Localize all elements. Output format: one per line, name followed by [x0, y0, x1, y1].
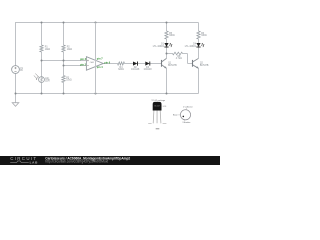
svg-text:http://circuitlab.com/c/387g43: http://circuitlab.com/c/387g437y2b4kt/OM…	[45, 160, 108, 164]
svg-text:TO-92 package: TO-92 package	[151, 100, 166, 102]
svg-text:LDR: LDR	[45, 81, 50, 83]
svg-text:10kΩ: 10kΩ	[66, 80, 72, 82]
svg-text:4.7kΩ: 4.7kΩ	[176, 58, 182, 60]
svg-text:LTL-4231N: LTL-4231N	[185, 46, 197, 48]
svg-text:10kΩ: 10kΩ	[45, 49, 51, 51]
svg-text:LTL-4231N: LTL-4231N	[153, 46, 165, 48]
svg-text:pin 2: pin 2	[80, 63, 86, 66]
svg-text:pin 4: pin 4	[97, 66, 103, 69]
svg-text:LAB: LAB	[30, 161, 39, 165]
svg-text:3 Emitter: 3 Emitter	[182, 121, 190, 124]
svg-text:1 Collector: 1 Collector	[183, 105, 193, 108]
svg-text:9V: 9V	[20, 70, 23, 72]
svg-text:pin 6: pin 6	[104, 61, 110, 64]
svg-text:1N4148: 1N4148	[131, 69, 140, 71]
svg-text:330Ω: 330Ω	[201, 35, 207, 37]
svg-text:BC547B: BC547B	[168, 65, 177, 67]
svg-text:BC547B: BC547B	[200, 65, 209, 67]
svg-text:620Ω: 620Ω	[118, 69, 124, 71]
svg-text:330Ω: 330Ω	[169, 35, 175, 37]
svg-text:pin 3: pin 3	[80, 58, 86, 61]
svg-text:pin 7: pin 7	[97, 57, 103, 60]
svg-text:1N4148: 1N4148	[143, 69, 152, 71]
svg-text:10kΩ: 10kΩ	[67, 49, 73, 51]
svg-text:BC547: BC547	[154, 106, 160, 108]
